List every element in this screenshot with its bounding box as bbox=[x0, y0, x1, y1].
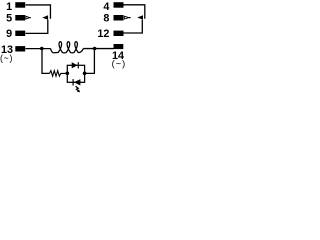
svg-text:1: 1 bbox=[6, 1, 12, 13]
svg-text:12: 12 bbox=[97, 28, 109, 40]
svg-text:9: 9 bbox=[6, 28, 12, 40]
svg-text:8: 8 bbox=[103, 13, 109, 25]
svg-text:(~): (~) bbox=[112, 59, 126, 69]
svg-text:4: 4 bbox=[103, 1, 109, 13]
svg-text:(~): (~) bbox=[0, 53, 13, 63]
svg-text:5: 5 bbox=[6, 13, 12, 25]
